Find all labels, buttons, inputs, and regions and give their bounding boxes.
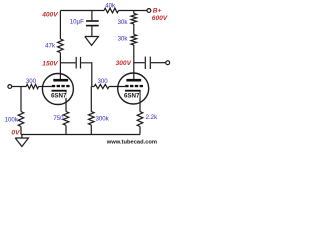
- tube V2 cathode: [125, 90, 141, 92]
- wire to right tube grid: [109, 86, 125, 88]
- svg-text:6SN7: 6SN7: [124, 93, 140, 100]
- terminal B+: [147, 9, 151, 13]
- resistor 750: [63, 112, 69, 126]
- wire bottom ground rail: [21, 134, 140, 136]
- resistor 30k lower: [131, 34, 137, 45]
- svg-text:150V: 150V: [42, 61, 58, 68]
- wire 750 bottom lead: [65, 125, 67, 134]
- svg-text:B+: B+: [153, 8, 162, 15]
- svg-text:2.2k: 2.2k: [146, 114, 158, 121]
- capacitor 10uF plates: [86, 20, 99, 26]
- wire 300k bottom lead: [90, 125, 92, 135]
- tube V1 label 6SN7: [51, 93, 67, 100]
- svg-text:6SN7: 6SN7: [51, 93, 67, 100]
- wire top rail left segment: [60, 10, 104, 12]
- resistor 300 grid stopper left: [26, 84, 38, 88]
- tube V2 envelope: [118, 73, 149, 104]
- svg-text:0V: 0V: [11, 130, 20, 137]
- wire to left tube grid: [39, 86, 52, 88]
- resistor 300 grid stopper right: [94, 84, 109, 88]
- svg-text:30k: 30k: [118, 19, 129, 26]
- ground symbol below 10uF: [85, 37, 99, 46]
- wire grid column down to 300k: [90, 87, 93, 112]
- wire 100k bottom to ground rail: [20, 127, 22, 135]
- svg-text:750: 750: [53, 115, 64, 122]
- tube V1 grid dashes: [52, 85, 70, 87]
- tube V1 cathode: [52, 90, 67, 92]
- resistor 30k upper: [131, 14, 137, 25]
- resistor 300k: [89, 112, 95, 126]
- svg-text:300: 300: [26, 78, 37, 85]
- svg-text:10µF: 10µF: [70, 18, 84, 25]
- wire 30k bottom to right tube plate: [133, 45, 135, 79]
- tube V2 grid dashes: [125, 85, 143, 87]
- svg-text:100k: 100k: [5, 117, 19, 124]
- tube V2 label 6SN7: [124, 93, 140, 100]
- wire 10uF cap top lead: [91, 11, 93, 21]
- capacitor C1 plate left: [75, 57, 77, 69]
- wire C1 to grid column corner: [81, 63, 92, 87]
- wire 150V node branch to coupling cap C1: [60, 62, 75, 64]
- capacitor C2 plate left: [144, 57, 146, 69]
- wire right cathode lead: [139, 91, 141, 112]
- svg-text:www.tubecad.com: www.tubecad.com: [106, 139, 157, 145]
- wire top rail right segment to B+: [119, 10, 148, 12]
- svg-text:47k: 47k: [45, 43, 56, 50]
- resistor 100k: [18, 112, 24, 127]
- wire 300V node branch to coupling cap C2: [134, 62, 145, 64]
- capacitor C1 plate right: [80, 57, 82, 69]
- svg-text:300V: 300V: [116, 60, 132, 67]
- tube V1 plate: [53, 79, 68, 82]
- svg-text:40k: 40k: [105, 2, 116, 9]
- tube V1 envelope: [42, 74, 73, 105]
- resistor R 40k (top rail): [104, 8, 119, 13]
- wire input to 300: [12, 86, 26, 88]
- terminal output: [166, 61, 170, 65]
- svg-text:30k: 30k: [118, 36, 129, 43]
- svg-text:400V: 400V: [41, 12, 58, 19]
- tube V2 plate: [126, 79, 141, 82]
- wire 30k chain top lead: [133, 11, 135, 14]
- wire C2 to output terminal: [151, 62, 166, 64]
- svg-text:300: 300: [98, 78, 109, 85]
- wire 2.2k bottom to rail corner: [139, 127, 141, 135]
- resistor 47k: [58, 39, 64, 53]
- terminal input: [8, 85, 12, 89]
- capacitor C2 plate right: [149, 57, 151, 69]
- wire grid stopper branch right stage: [92, 86, 94, 88]
- resistor 2.2k: [137, 112, 143, 127]
- ground symbol 0V: [15, 135, 28, 147]
- wire between 30k resistors: [133, 24, 135, 34]
- svg-text:300k: 300k: [96, 116, 110, 123]
- wire input junction down to 100k: [20, 87, 22, 112]
- svg-text:600V: 600V: [152, 15, 168, 22]
- wire 10uF bottom lead to ground: [91, 26, 93, 36]
- wire 47k bottom to left tube plate: [59, 53, 61, 80]
- wire left column upper lead: [59, 11, 61, 40]
- wire left cathode lead: [65, 91, 67, 112]
